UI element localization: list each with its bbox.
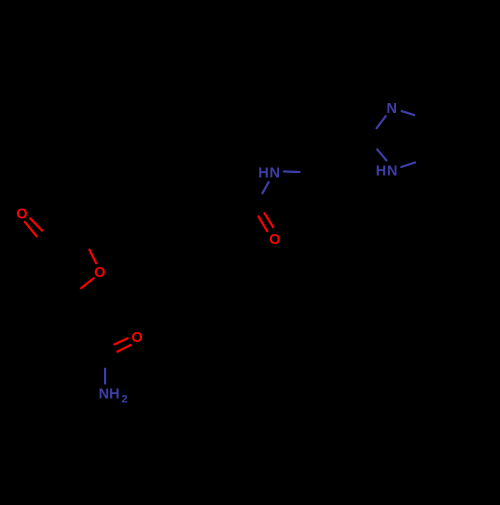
bond N-CH2 (right, horizontal) [284, 170, 300, 173]
svg-text:2: 2 [121, 394, 127, 406]
bond N-C carbonyl (vertical) [104, 369, 106, 384]
bond N3-C3a (right) [402, 111, 415, 115]
double bond C=O lower line (bottom amide) [117, 345, 130, 352]
svg-text:O: O [269, 232, 280, 248]
svg-text:O: O [94, 265, 105, 281]
double bond C3=O upper line [30, 218, 42, 230]
double bond C3=O lower line [25, 222, 37, 236]
svg-text:O: O [131, 330, 142, 346]
svg-text:N: N [99, 386, 109, 402]
double bond C=O upper line (bottom amide) [114, 338, 127, 344]
bond N1-C2 (up-left) [377, 149, 386, 160]
svg-text:N: N [270, 165, 280, 181]
svg-text:N: N [386, 101, 396, 117]
double bond C=O right line (centre) [264, 213, 273, 227]
bond O1-C5 (down-left) [81, 278, 94, 288]
bond O1-C2 (up) [89, 250, 96, 264]
svg-text:H: H [109, 386, 119, 402]
svg-text:O: O [16, 207, 27, 223]
double bond C=O left line (centre) [258, 216, 267, 231]
svg-text:N: N [387, 164, 397, 180]
bond N1-C7a (right) [401, 162, 415, 167]
svg-text:H: H [376, 164, 386, 180]
svg-text:H: H [258, 165, 268, 181]
bond N3-C2 (down-left) [377, 116, 386, 128]
bond N-C carbonyl (down-left) [262, 182, 268, 193]
